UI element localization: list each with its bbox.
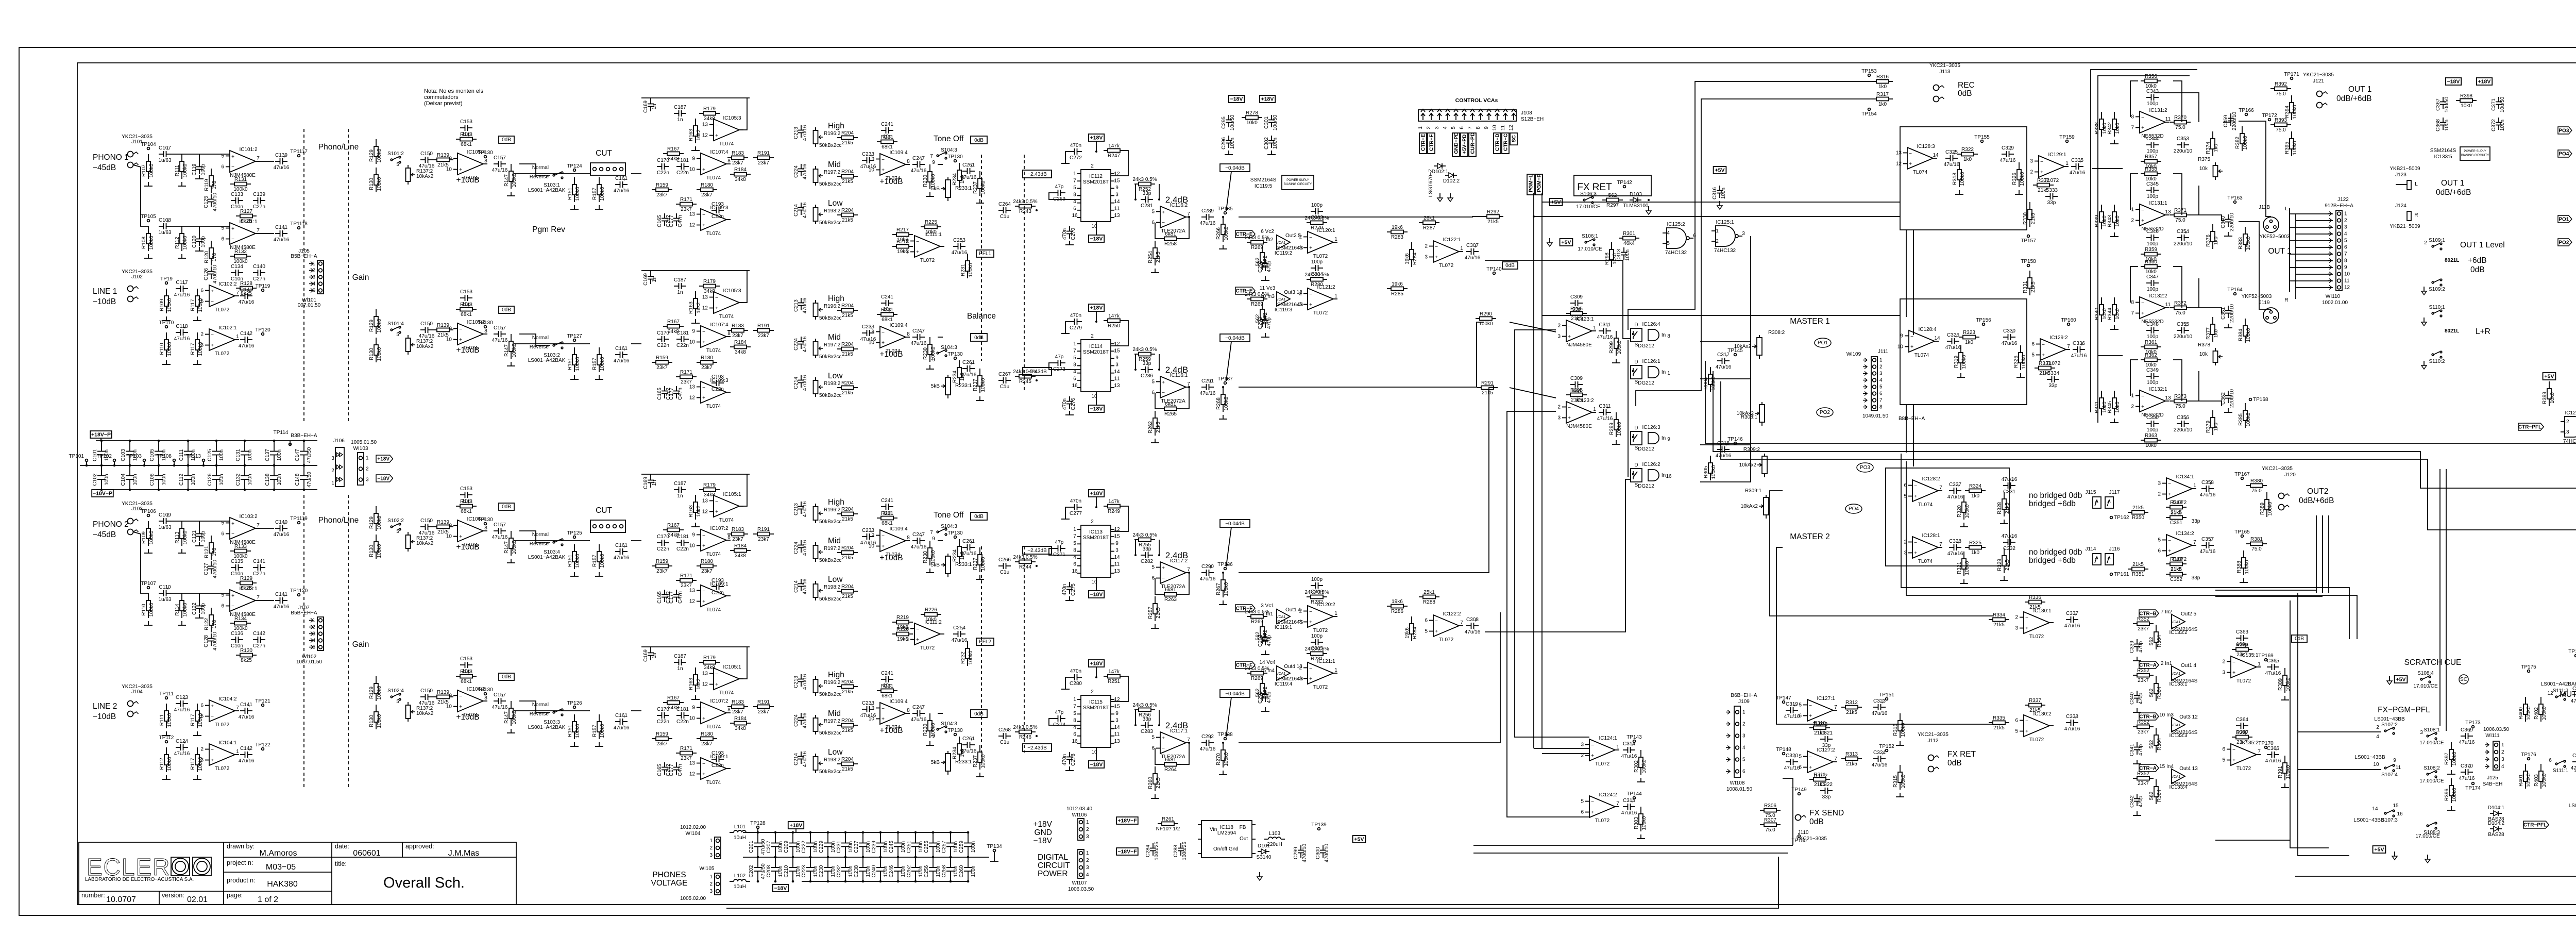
- svg-text:PO3: PO3: [1860, 465, 1870, 471]
- svg-text:47u/16: 47u/16: [239, 299, 255, 305]
- svg-text:912B−EH−A: 912B−EH−A: [2325, 203, 2353, 209]
- svg-text:R143: R143: [460, 499, 472, 505]
- svg-text:C165: C165: [657, 764, 663, 776]
- feedback resistor: [877, 135, 897, 150]
- svg-text:IC123:1: IC123:1: [1575, 316, 1594, 322]
- svg-text:Out3 12: Out3 12: [2179, 714, 2198, 720]
- svg-text:R269: R269: [1251, 619, 1263, 625]
- svg-text:24k3 0.5%: 24k3 0.5%: [1245, 666, 1269, 672]
- svg-text:3: 3: [1115, 548, 1118, 554]
- svg-text:PO1: PO1: [2558, 217, 2569, 223]
- capacitor: [1947, 482, 1963, 500]
- capacitor C187: [674, 654, 686, 672]
- svg-text:C266: C266: [998, 557, 1011, 563]
- svg-text:12: 12: [1509, 125, 1514, 131]
- svg-text:+: +: [1435, 629, 1438, 635]
- svg-text:23k7: 23k7: [701, 569, 713, 574]
- caps: [657, 386, 671, 400]
- capacitor: [2064, 714, 2080, 732]
- resistor: [369, 676, 382, 701]
- resistor R356: [2141, 74, 2161, 89]
- svg-text:C105: C105: [149, 449, 155, 461]
- svg-text:C259: C259: [959, 841, 964, 853]
- svg-text:3: 3: [1425, 255, 1428, 260]
- wire: [2215, 840, 2290, 841]
- svg-text:TL072: TL072: [215, 766, 230, 772]
- svg-text:−: −: [459, 694, 462, 699]
- svg-text:IC126:3: IC126:3: [1642, 425, 1660, 430]
- switch S103:4: [553, 539, 563, 546]
- wire: [1507, 411, 1589, 817]
- capacitor C303: [1311, 203, 1323, 221]
- svg-text:R171: R171: [680, 197, 692, 203]
- svg-text:7: 7: [1073, 178, 1076, 184]
- power +18V: [1089, 134, 1104, 141]
- wire master loops: [1906, 230, 1907, 317]
- svg-text:5: 5: [1073, 185, 1076, 191]
- svg-text:TP155: TP155: [1974, 135, 1990, 140]
- svg-text:VCA1: VCA1: [2171, 724, 2180, 727]
- feedback resistor: [2166, 557, 2187, 572]
- svg-text:100n: 100n: [1721, 188, 1726, 199]
- wire to pgm rev switch: [519, 701, 550, 712]
- bypass capacitor C104: [129, 465, 130, 476]
- svg-text:47u/16: 47u/16: [1200, 576, 1216, 582]
- svg-text:470n: 470n: [1070, 498, 1081, 504]
- svg-text:100n: 100n: [848, 865, 854, 877]
- resistor: [369, 705, 382, 729]
- capacitor C290: [1200, 564, 1216, 582]
- capacitor: [2064, 611, 2080, 629]
- VCA IC119:2: [1275, 235, 1293, 256]
- svg-text:47u/16: 47u/16: [174, 751, 190, 757]
- svg-text:3: 3: [1879, 371, 1883, 377]
- svg-text:IC105:3: IC105:3: [723, 288, 741, 294]
- svg-text:+: +: [1309, 245, 1312, 251]
- svg-text:100k0: 100k0: [182, 236, 188, 250]
- feedback 21k5 33p: [2166, 510, 2187, 526]
- svg-text:100p: 100p: [2147, 287, 2159, 292]
- svg-text:2: 2: [200, 747, 204, 753]
- svg-text:C106: C106: [149, 473, 155, 486]
- caps: [1264, 114, 1278, 130]
- svg-text:C139: C139: [275, 153, 287, 158]
- svg-text:16k2: 16k2: [696, 678, 702, 690]
- test point: [255, 698, 270, 706]
- svg-text:Mid: Mid: [828, 333, 841, 342]
- svg-text:C311: C311: [1599, 404, 1611, 409]
- svg-text:+: +: [715, 682, 718, 688]
- capacitor: [1945, 332, 1961, 350]
- svg-text:C251: C251: [906, 841, 912, 853]
- caps C284 C288: [1145, 841, 1160, 860]
- feedback resistor 8k25: [236, 209, 257, 224]
- resistor 24k3: [1245, 235, 1269, 251]
- svg-text:10k0: 10k0: [2115, 402, 2121, 413]
- svg-text:SSM2018T: SSM2018T: [1083, 535, 1109, 541]
- svg-text:5: 5: [200, 299, 204, 305]
- svg-text:−: −: [1435, 244, 1438, 250]
- svg-text:R109: R109: [159, 299, 165, 311]
- capacitors 22n: [657, 330, 669, 348]
- svg-text:2: 2: [2131, 404, 2134, 410]
- svg-text:47u/16: 47u/16: [911, 717, 927, 723]
- svg-text:3: 3: [366, 477, 369, 483]
- capacitor 470p: [1258, 315, 1272, 329]
- resistor 24k3 R243: [1013, 199, 1037, 214]
- svg-text:+18V: +18V: [790, 823, 803, 829]
- resistor 21k5: [837, 208, 858, 223]
- svg-text:CTR−E: CTR−E: [1421, 134, 1427, 151]
- svg-text:220u/10: 220u/10: [2229, 389, 2235, 408]
- svg-text:C1u: C1u: [1000, 740, 1009, 745]
- svg-text:C247: C247: [912, 705, 925, 710]
- svg-text:21k5: 21k5: [2030, 213, 2036, 224]
- svg-text:R117: R117: [190, 758, 196, 770]
- svg-text:R: R: [2414, 212, 2418, 218]
- svg-text:L+R: L+R: [2476, 327, 2490, 336]
- svg-text:SSM2164S: SSM2164S: [2172, 730, 2198, 736]
- caps C299 C300: [1293, 843, 1308, 862]
- connector WI105: [709, 873, 721, 895]
- net label +5V-PD: [1461, 133, 1468, 157]
- svg-text:IC109:3: IC109:3: [710, 378, 728, 383]
- op-amp IC109:4: [869, 526, 910, 558]
- resistor: [1959, 330, 1979, 345]
- svg-text:100k0: 100k0: [575, 554, 581, 568]
- svg-text:R295: R295: [1570, 306, 1583, 312]
- capacitor: [911, 705, 927, 723]
- svg-text:47u/16: 47u/16: [961, 551, 977, 557]
- svg-text:1n: 1n: [652, 104, 657, 109]
- svg-text:C224: C224: [793, 165, 799, 178]
- svg-text:OUT 1: OUT 1: [2441, 179, 2464, 188]
- svg-text:R110: R110: [159, 343, 165, 355]
- svg-text:C177: C177: [669, 215, 674, 227]
- svg-text:D: D: [1634, 425, 1638, 431]
- cap C1u C266: [998, 557, 1011, 575]
- svg-text:1: 1: [1334, 293, 1337, 299]
- svg-text:21k5: 21k5: [1482, 390, 1493, 396]
- resistor: [504, 164, 517, 189]
- svg-text:bridged +6db: bridged +6db: [2029, 499, 2076, 508]
- switch IC126:2 DG212: [1631, 462, 1660, 488]
- svg-text:+: +: [211, 758, 214, 763]
- wire nand branch 2: [1700, 378, 1751, 379]
- capacitor C340: [2129, 691, 2144, 705]
- svg-text:12: 12: [2563, 419, 2569, 425]
- svg-text:C213: C213: [793, 503, 799, 515]
- resistor: [663, 523, 684, 538]
- capacitor: [860, 528, 876, 546]
- svg-text:−: −: [715, 123, 718, 128]
- svg-text:+: +: [702, 395, 705, 401]
- svg-text:+18V: +18V: [1261, 96, 1274, 103]
- bypass capacitor C257: [950, 832, 951, 843]
- svg-text:IC121:2: IC121:2: [1317, 285, 1335, 290]
- svg-text:23k7: 23k7: [656, 365, 668, 371]
- svg-text:10kAx2: 10kAx2: [416, 344, 434, 349]
- svg-text:R151: R151: [567, 555, 573, 567]
- svg-text:5: 5: [221, 521, 224, 526]
- op-amp IC107:4: [689, 322, 731, 354]
- svg-text:100p: 100p: [1311, 633, 1323, 639]
- svg-text:YKB21−5009: YKB21−5009: [2389, 166, 2420, 172]
- svg-text:IC109:1: IC109:1: [710, 581, 728, 587]
- svg-text:TP103: TP103: [127, 454, 142, 459]
- test point: [947, 728, 963, 736]
- svg-text:R191: R191: [757, 527, 770, 532]
- svg-text:24k3 0.5%: 24k3 0.5%: [1013, 555, 1037, 560]
- svg-text:47u/50: 47u/50: [760, 863, 766, 879]
- svg-text:100p: 100p: [1311, 577, 1323, 582]
- capacitor C224: [793, 163, 808, 179]
- arrow: [1226, 342, 1231, 381]
- resistor R341: [2094, 391, 2108, 415]
- svg-text:R283: R283: [1391, 235, 1403, 240]
- svg-text:6: 6: [1073, 376, 1076, 382]
- test point: [567, 333, 582, 341]
- svg-text:147k: 147k: [1108, 143, 1120, 149]
- wire ne out 3: [2191, 401, 2222, 406]
- svg-text:+: +: [702, 340, 705, 345]
- wire fb: [1135, 540, 1136, 555]
- pfl op-amp 2: [906, 620, 944, 651]
- pot PO3: [1857, 463, 1873, 472]
- svg-text:10: 10: [2344, 272, 2350, 277]
- svg-text:B3B−EH−A: B3B−EH−A: [291, 433, 317, 439]
- svg-text:1k0: 1k0: [1963, 157, 1972, 162]
- feedback 21k5 33p: [2166, 567, 2187, 582]
- switch S103:1: [553, 172, 563, 179]
- resistor stalk: [1997, 548, 2010, 573]
- resistor stalk: [1952, 162, 1965, 187]
- switch S104:3: [937, 726, 947, 733]
- svg-text:47u/16: 47u/16: [802, 336, 808, 352]
- bypass capacitor C126: [216, 465, 217, 476]
- svg-text:19k6: 19k6: [1392, 599, 1403, 605]
- svg-text:C27n: C27n: [253, 204, 265, 210]
- svg-text:C161: C161: [615, 346, 628, 352]
- svg-text:R221: R221: [881, 683, 893, 689]
- svg-text:R151: R151: [567, 358, 573, 370]
- boxed 0dB: [499, 673, 514, 680]
- svg-text:47u/16: 47u/16: [274, 165, 290, 171]
- svg-text:1: 1: [1073, 171, 1076, 177]
- svg-text:R375: R375: [2198, 157, 2210, 162]
- cap 470n C272: [1070, 143, 1082, 161]
- svg-text:R345: R345: [2107, 401, 2113, 413]
- bypass capacitor C260: [968, 857, 969, 867]
- svg-text:6: 6: [221, 604, 224, 609]
- op-amp IC123:2: [1557, 398, 1596, 429]
- pot R197:2: [814, 339, 841, 358]
- svg-text:5: 5: [1151, 565, 1155, 571]
- svg-text:100p: 100p: [2147, 194, 2159, 199]
- svg-text:J.M.Mas: J.M.Mas: [448, 849, 479, 858]
- svg-text:C22n: C22n: [657, 546, 669, 552]
- svg-text:2: 2: [366, 466, 369, 472]
- svg-text:47u/16: 47u/16: [802, 375, 808, 391]
- svg-text:1n: 1n: [652, 480, 657, 486]
- capacitor C317: [1716, 352, 1732, 370]
- svg-text:−: −: [702, 761, 705, 767]
- svg-text:−45dB: −45dB: [93, 163, 116, 172]
- wire monitor bus 1: [1705, 322, 2576, 443]
- resistor R331: [2023, 271, 2036, 295]
- wire bottom bus: [726, 857, 1778, 908]
- svg-text:LABORATORIO DE ELECTRO−ACUSTIC: LABORATORIO DE ELECTRO−ACUSTICA S.A.: [85, 877, 194, 882]
- svg-text:16k2: 16k2: [696, 129, 702, 141]
- svg-text:23k7: 23k7: [656, 569, 668, 574]
- svg-text:TL072: TL072: [1313, 310, 1328, 316]
- feedback resistor: [230, 616, 251, 631]
- svg-text:10kAx2: 10kAx2: [416, 174, 434, 179]
- svg-text:TP106: TP106: [141, 509, 156, 514]
- resistor stalk: [1893, 765, 1906, 790]
- bypass capacitor C202: [757, 857, 758, 867]
- svg-text:23k7: 23k7: [701, 192, 713, 198]
- svg-text:Mid: Mid: [828, 709, 841, 718]
- bypass capacitor C210: [792, 857, 793, 867]
- resistor stalk: [2278, 756, 2291, 780]
- svg-text:R130: R130: [369, 178, 375, 190]
- capacitor 470p: [1258, 633, 1272, 647]
- svg-text:TP1118: TP1118: [290, 221, 308, 227]
- svg-text:1u/63: 1u/63: [158, 597, 171, 603]
- svg-text:6: 6: [221, 531, 224, 537]
- wire: [631, 710, 641, 711]
- svg-text:100k0: 100k0: [512, 343, 517, 358]
- svg-text:100k0: 100k0: [1711, 465, 1717, 479]
- wire: [1473, 845, 1793, 846]
- svg-text:TL072: TL072: [1313, 684, 1328, 690]
- svg-text:C125: C125: [204, 196, 209, 208]
- svg-text:Normal: Normal: [532, 532, 549, 538]
- svg-text:R128: R128: [240, 281, 252, 287]
- svg-text:0dB: 0dB: [974, 335, 984, 341]
- svg-text:10: 10: [869, 544, 875, 549]
- capacitor C261: [961, 162, 977, 180]
- pot R198:2: [814, 581, 841, 600]
- svg-text:+: +: [459, 704, 462, 710]
- capacitor C365: [2265, 658, 2281, 676]
- loop wires right: [2154, 93, 2199, 122]
- op-amp IC105:4: [446, 149, 487, 181]
- resistor R113: [204, 241, 217, 265]
- resistor stalk: [2012, 162, 2025, 187]
- resistor 24k3 R244: [1013, 555, 1037, 570]
- resistor R291: [1477, 380, 1498, 396]
- svg-text:C293: C293: [1258, 317, 1263, 329]
- op-amp IC109:4: [869, 699, 910, 730]
- boxed 0dB: [499, 306, 514, 313]
- test point: [255, 327, 270, 335]
- svg-text:C237: C237: [854, 841, 859, 853]
- svg-text:C308: C308: [1466, 617, 1479, 623]
- svg-text:34k8: 34k8: [735, 349, 746, 355]
- svg-text:J108: J108: [1521, 110, 1532, 116]
- svg-text:R111: R111: [175, 164, 180, 176]
- svg-text:R234: R234: [952, 371, 958, 383]
- svg-text:OUT 1: OUT 1: [2268, 247, 2291, 256]
- bypass capacitor C105: [158, 441, 159, 452]
- svg-text:562: 562: [2149, 688, 2155, 697]
- bypass capacitor C237: [862, 832, 863, 843]
- arrow links: [2093, 497, 2101, 508]
- svg-text:+18V: +18V: [1090, 491, 1103, 497]
- svg-text:R285: R285: [1391, 291, 1403, 297]
- feedback wires: [2130, 360, 2138, 396]
- svg-text:−: −: [715, 672, 718, 677]
- pot R378 10k: [2213, 348, 2223, 365]
- svg-text:C301: C301: [1264, 116, 1269, 129]
- svg-text:R398: R398: [2460, 93, 2472, 99]
- switch S101:4: [387, 321, 404, 333]
- svg-text:C142: C142: [240, 331, 252, 337]
- capacitors 22n: [657, 534, 669, 552]
- test point TP134: [987, 844, 1002, 851]
- svg-text:21k5: 21k5: [2132, 562, 2144, 567]
- resistor R257: [1148, 596, 1161, 621]
- resistor: [369, 535, 382, 559]
- svg-text:C213: C213: [793, 299, 799, 312]
- capacitor C261: [961, 539, 977, 557]
- svg-text:1n: 1n: [652, 276, 657, 282]
- gain pot: [406, 335, 434, 355]
- capacitor 470u: [204, 264, 218, 283]
- test point: [567, 163, 582, 171]
- svg-text:19k6: 19k6: [897, 249, 908, 255]
- svg-text:R129: R129: [369, 149, 375, 162]
- svg-text:R167: R167: [667, 523, 680, 528]
- svg-text:220u/10: 220u/10: [2174, 241, 2193, 247]
- svg-text:C222: C222: [801, 841, 807, 853]
- capacitor C214: [793, 751, 808, 767]
- svg-text:C335: C335: [2071, 158, 2083, 163]
- svg-text:R361: R361: [2145, 340, 2157, 345]
- svg-text:47p: 47p: [1055, 184, 1064, 190]
- svg-text:6: 6: [1151, 220, 1155, 226]
- net label PO4: [2558, 150, 2572, 157]
- jack: [128, 152, 139, 157]
- svg-text:6k81: 6k81: [1165, 757, 1176, 763]
- svg-text:R265: R265: [1164, 411, 1177, 417]
- svg-text:C47n: C47n: [677, 764, 683, 776]
- resistor R301: [1619, 231, 1639, 246]
- resistor R281: [1304, 646, 1329, 662]
- svg-text:C253: C253: [953, 238, 965, 243]
- fader 5kB: [931, 375, 951, 398]
- svg-text:100k0: 100k0: [980, 378, 986, 392]
- bypass capacitor C232: [845, 857, 846, 867]
- svg-text:21k5: 21k5: [1156, 422, 1161, 433]
- svg-text:100k0: 100k0: [167, 298, 173, 312]
- svg-text:CTR−D: CTR−D: [1495, 133, 1501, 151]
- svg-text:+: +: [459, 337, 462, 343]
- svg-text:7: 7: [930, 530, 933, 536]
- wire: [641, 270, 750, 271]
- svg-text:TP127: TP127: [567, 333, 582, 339]
- svg-text:5: 5: [1879, 385, 1883, 390]
- svg-text:R108: R108: [141, 237, 147, 249]
- svg-text:R157: R157: [592, 725, 598, 737]
- svg-text:In: In: [1662, 332, 1666, 338]
- svg-text:+: +: [2025, 729, 2028, 734]
- power +5V: [2373, 846, 2386, 853]
- svg-text:10: 10: [689, 543, 696, 549]
- svg-text:33p: 33p: [1143, 716, 1151, 722]
